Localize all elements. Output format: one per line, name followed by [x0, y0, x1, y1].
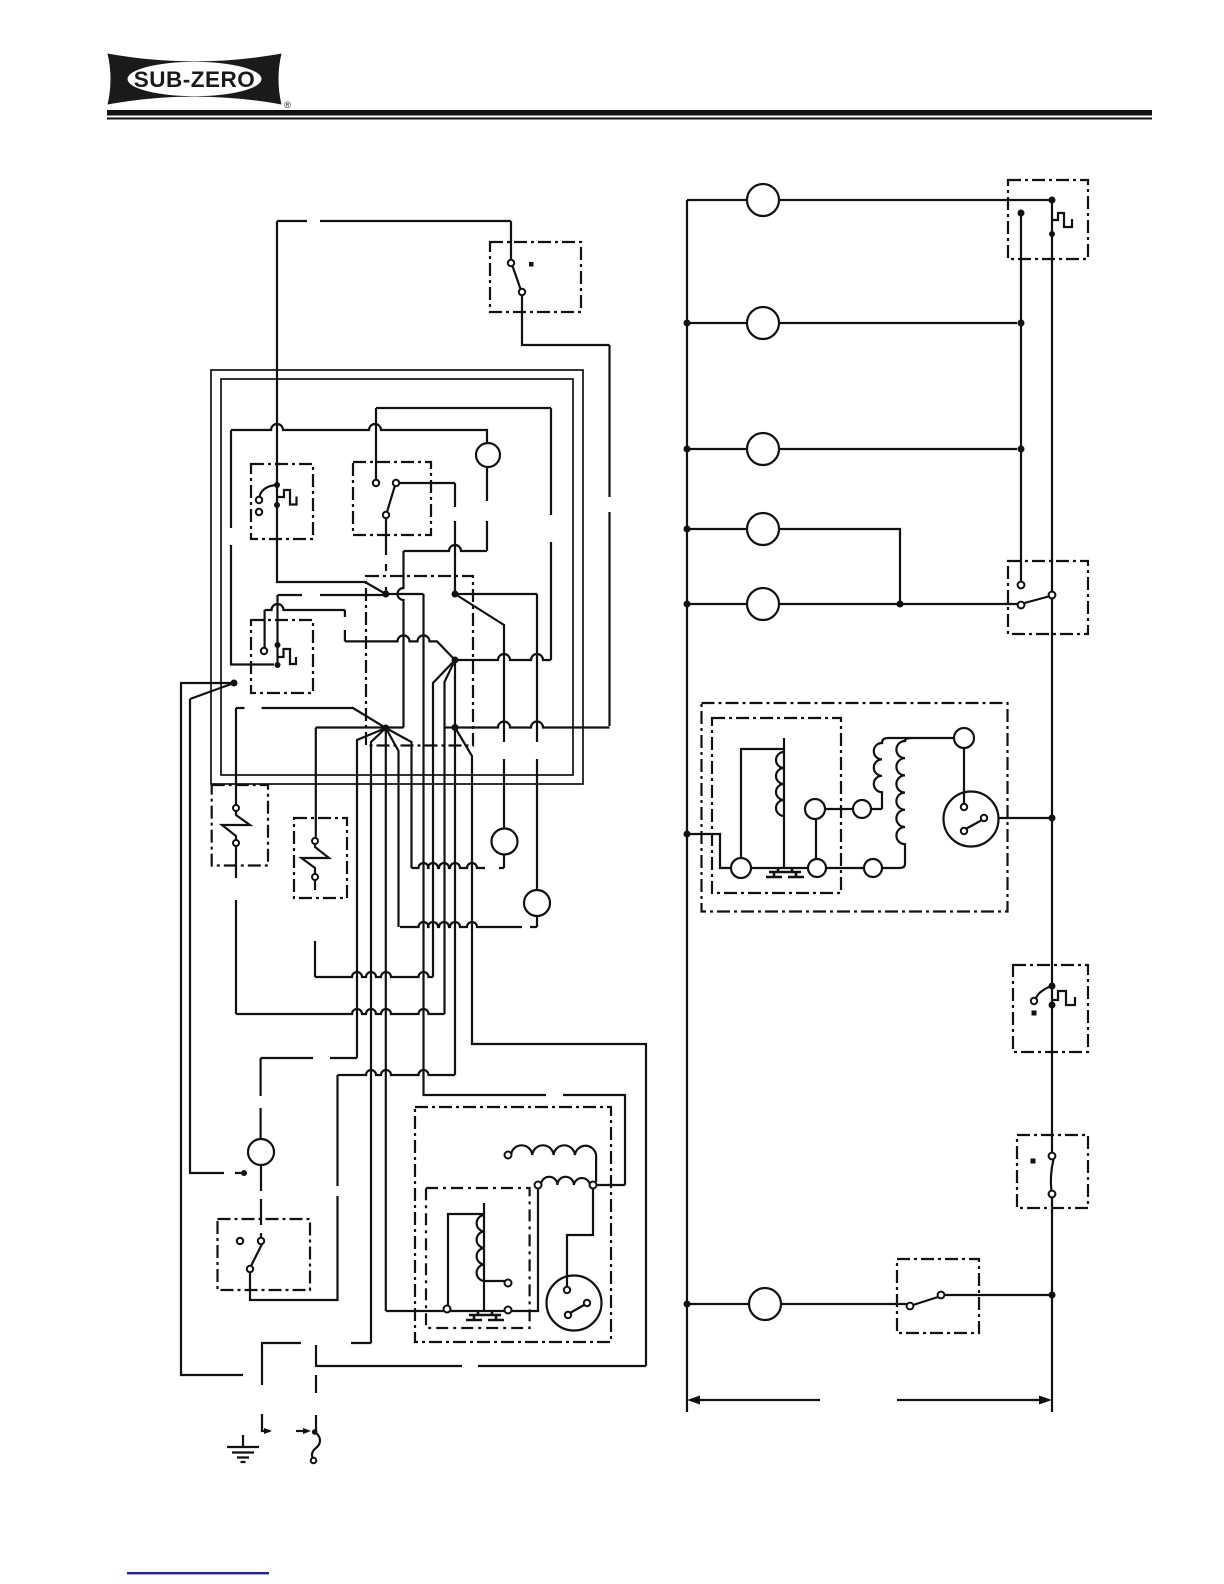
svg-text:®: ® [284, 100, 291, 111]
svg-text:SUB-ZERO: SUB-ZERO [134, 67, 256, 92]
